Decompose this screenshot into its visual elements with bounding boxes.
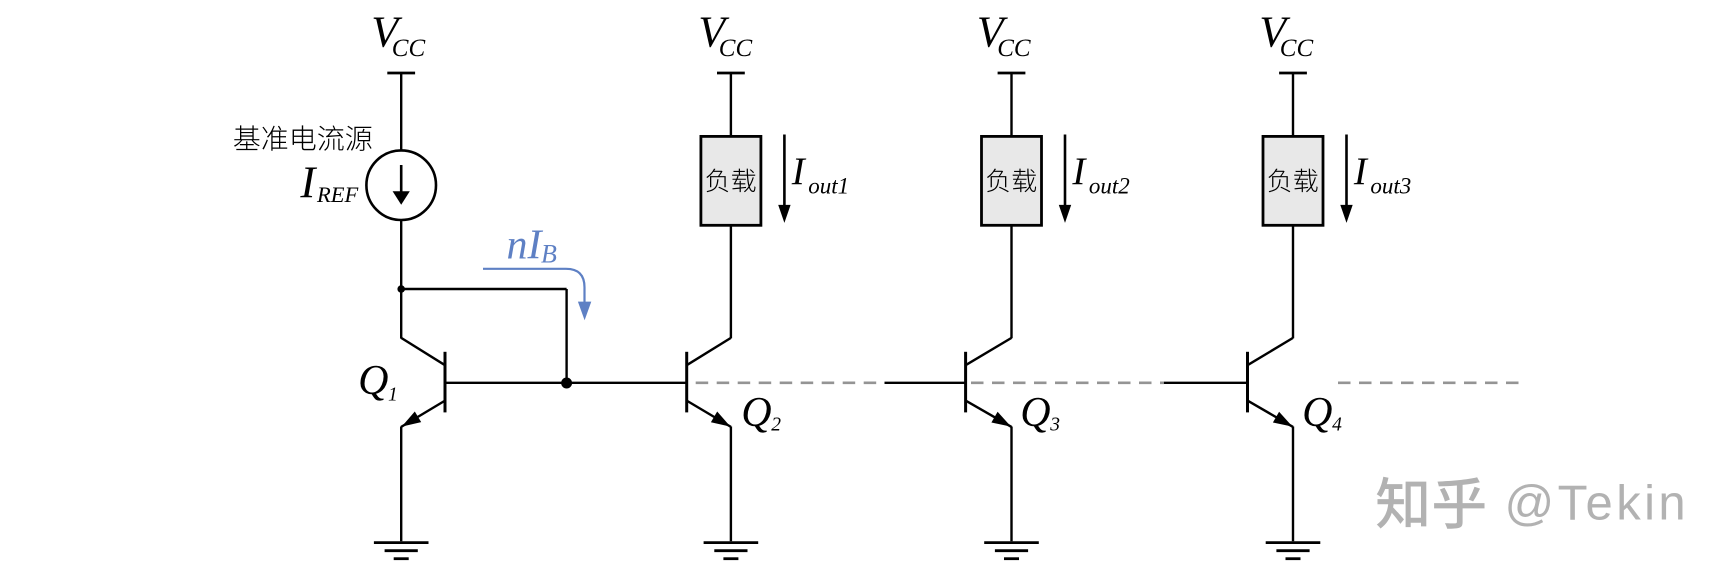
label 基准电流源 (reference current source) (234, 125, 372, 151)
wire base rail stub into Q4 (1164, 382, 1248, 384)
wire feedback link vertical down to base rail (565, 289, 567, 383)
net VCC terminal 1 label V_CC (371, 8, 425, 62)
current arrow I_out3 (1340, 135, 1352, 223)
wire load to Q3 collector (1010, 225, 1012, 338)
watermark 知乎 @Tekin (1377, 477, 1689, 531)
label I_out3 (1353, 150, 1411, 199)
transistor Q3 (966, 338, 1012, 427)
wire load to Q4 collector (1292, 225, 1294, 338)
svg-text:4: 4 (1332, 415, 1342, 436)
current arrow I_out2 (1059, 135, 1071, 223)
svg-text:Q: Q (741, 390, 771, 436)
net VCC terminal 2 bar (717, 72, 745, 75)
load box L2 (负载) (982, 136, 1042, 225)
net VCC terminal 3 label V_CC (977, 8, 1031, 62)
label Q2 (741, 390, 781, 436)
current arrow I_out1 (778, 135, 790, 223)
ground G1 (374, 543, 429, 559)
ground G3 (984, 543, 1039, 559)
dashed base rail segment Q2 to Q3 (696, 381, 885, 384)
ground G2 (704, 543, 759, 559)
label 负载 in load box 2 (987, 169, 1036, 193)
node A junction dot (397, 285, 405, 293)
dashed base rail segment Q3 to Q4 (971, 381, 1164, 384)
wire current source to node A and down to Q1 collector (400, 220, 402, 339)
transistor Q2 (687, 338, 731, 427)
svg-text:CC: CC (719, 35, 753, 62)
wire load to Q2 collector (730, 225, 732, 338)
svg-text:1: 1 (388, 384, 398, 405)
svg-text:I: I (299, 158, 317, 208)
wire Q4 emitter to ground (1292, 427, 1294, 542)
dashed base rail continuation after Q4 (1338, 381, 1526, 384)
label Q1 (358, 358, 398, 405)
wire Q3 emitter to ground (1010, 427, 1012, 542)
svg-text:3: 3 (1049, 415, 1060, 436)
wire VCC4 to load (1292, 73, 1294, 138)
wire VCC2 to load (730, 73, 732, 138)
svg-text:nI: nI (507, 222, 544, 268)
load box L3 (负载) (1263, 136, 1323, 225)
wire Q1 emitter to ground (400, 427, 402, 542)
svg-text:2: 2 (771, 415, 781, 436)
label 负载 in load box 1 (706, 169, 755, 193)
svg-text:I: I (791, 150, 807, 193)
blue base current arrow nI_B (483, 269, 591, 321)
svg-text:B: B (541, 240, 557, 269)
svg-text:Q: Q (358, 358, 388, 404)
current source IREF symbol (366, 150, 436, 220)
net VCC terminal 3 bar (998, 72, 1026, 75)
svg-text:I: I (1071, 150, 1087, 193)
load box L1 (负载) (701, 136, 761, 225)
svg-text:REF: REF (316, 182, 358, 207)
wire Q2 emitter to ground (730, 427, 732, 542)
transistor Q1 (401, 338, 445, 427)
net VCC terminal 4 label V_CC (1259, 8, 1313, 62)
wire VCC3 to load (1010, 73, 1012, 138)
svg-text:Q: Q (1302, 390, 1332, 436)
label I_out1 (791, 150, 849, 199)
svg-text:out2: out2 (1089, 174, 1130, 199)
value label I_REF (299, 158, 358, 208)
svg-text:out1: out1 (808, 174, 849, 199)
label nI_B (507, 222, 558, 268)
net VCC terminal 1 bar (387, 72, 415, 75)
net VCC terminal 2 label V_CC (698, 8, 752, 62)
svg-text:CC: CC (392, 35, 426, 62)
label Q3 (1020, 390, 1060, 436)
label 负载 in load box 3 (1268, 169, 1317, 193)
svg-text:CC: CC (997, 35, 1031, 62)
ground G4 (1266, 543, 1321, 559)
svg-text:Q: Q (1020, 390, 1050, 436)
transistor Q4 (1248, 338, 1294, 427)
net VCC terminal 4 bar (1279, 72, 1307, 75)
wire base rail stub into Q3 (885, 382, 966, 384)
svg-text:CC: CC (1280, 35, 1314, 62)
wire VCC1 to current source (400, 73, 402, 151)
label I_out2 (1071, 150, 1129, 199)
node B junction dot on base rail (561, 378, 572, 389)
wire node A to feedback link (horizontal) (401, 288, 566, 290)
svg-text:out3: out3 (1370, 174, 1411, 199)
svg-text:@Tekin: @Tekin (1505, 477, 1690, 531)
label Q4 (1302, 390, 1342, 436)
svg-text:I: I (1353, 150, 1369, 193)
wire base rail Q1 to Q2 (445, 382, 687, 384)
